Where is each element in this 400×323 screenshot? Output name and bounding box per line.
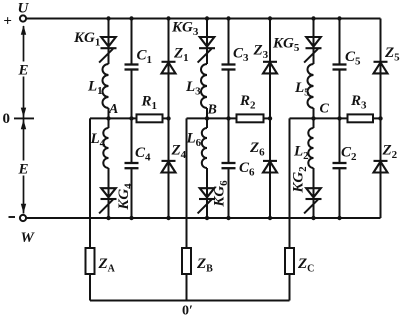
axis arrow up top [21, 25, 26, 35]
thyristor KG6 [198, 188, 215, 213]
wire thyristor column lower leg2 [206, 168, 208, 218]
junction top rail C1 [129, 16, 133, 20]
svg-text:A: A [108, 102, 118, 117]
label L5 [294, 80, 310, 99]
resistor R3 [348, 114, 374, 122]
label KG3 [171, 20, 199, 39]
wire C4 bottom lead [131, 169, 133, 218]
label KG4 [116, 183, 135, 211]
junction bottom rail C6 [226, 216, 230, 220]
resistor R1 [137, 114, 163, 122]
wire C3 top lead [228, 19, 230, 64]
junction node C capacitor [337, 116, 341, 120]
diode Z3 [263, 62, 277, 74]
wire C6 top lead [228, 118, 230, 162]
wire L1 to node A [108, 108, 110, 118]
svg-text:ZB: ZB [196, 256, 213, 275]
diode Z5 [374, 62, 388, 74]
capacitor C3 [222, 65, 236, 70]
junction top rail KG3 [205, 16, 209, 20]
wire R2 right lead [263, 117, 271, 119]
node 0 tick [14, 117, 34, 119]
inductor L5 [308, 64, 314, 108]
svg-text:C3: C3 [233, 46, 249, 65]
junction bottom rail C4 [129, 216, 133, 220]
wire leg1 thyristor column upper [108, 19, 110, 65]
label L1 [87, 79, 103, 98]
label 0' [182, 304, 193, 319]
junction bottom rail KG4 [106, 216, 110, 220]
inductor L2 [308, 128, 313, 168]
junction node A capacitor [129, 116, 133, 120]
wire load B drop [186, 118, 188, 248]
inductor L3 [201, 64, 207, 108]
wire C1 top lead [131, 19, 133, 64]
wire diode column upper leg1 [168, 19, 170, 119]
wire load A to 0' [89, 274, 91, 301]
wire R1 right lead [162, 117, 169, 119]
svg-text:KG1: KG1 [73, 30, 100, 49]
thyristor KG2 [304, 188, 321, 213]
wire L5 to node C [313, 108, 315, 118]
svg-text:KG5: KG5 [272, 36, 300, 55]
junction top rail C3 [226, 16, 230, 20]
label Z2 [382, 143, 398, 162]
wire diode column upper leg2 [269, 19, 271, 119]
svg-text:C5: C5 [345, 49, 361, 68]
capacitor C6 [222, 163, 236, 168]
svg-text:0′: 0′ [182, 304, 193, 319]
diode Z2 [374, 161, 388, 173]
wire bottom rail W (-) [26, 217, 380, 219]
wire load C drop [289, 118, 291, 248]
wire C2 bottom lead [339, 169, 341, 218]
junction node C diode [378, 116, 382, 120]
svg-text:C2: C2 [341, 145, 357, 164]
svg-text:Z5: Z5 [384, 45, 400, 64]
node C [311, 116, 315, 120]
label ZB [196, 256, 213, 275]
label U [18, 1, 30, 17]
svg-text:L3: L3 [185, 79, 201, 98]
wire top rail U (+) [26, 18, 380, 20]
svg-text:L2: L2 [293, 144, 309, 163]
terminal U [20, 15, 26, 21]
junction bottom rail KG2 [311, 216, 315, 220]
wire node A to L4 [108, 118, 110, 128]
wire C6 bottom lead [228, 169, 230, 218]
label L2 [293, 144, 309, 163]
wire diode column lower leg1 [168, 118, 170, 218]
capacitor C2 [333, 163, 347, 168]
wire C4 top lead [131, 118, 133, 162]
wire R3 right lead [372, 117, 381, 119]
capacitor C5 [333, 65, 347, 70]
svg-text:Z1: Z1 [173, 46, 189, 65]
axis arrow down mid [21, 108, 26, 118]
wire thyristor column lower leg1 [108, 168, 110, 218]
thyristor KG4 [99, 188, 116, 213]
wire C2 top lead [339, 118, 341, 162]
svg-text:0: 0 [3, 111, 11, 127]
load impedance ZB [182, 248, 191, 274]
svg-text:C: C [320, 102, 330, 117]
wire node C to L2 [313, 118, 315, 128]
label E upper [17, 62, 30, 79]
junction node B diode [268, 116, 272, 120]
inductor L4 [103, 128, 108, 168]
axis arrow up mid [21, 120, 26, 130]
svg-text:L1: L1 [87, 79, 103, 98]
thyristor KG1 [99, 37, 116, 63]
wire diode column lower leg3 [380, 118, 382, 218]
label C3 [233, 46, 249, 65]
wire diode column upper leg3 [380, 19, 382, 119]
label R1 [141, 94, 158, 113]
svg-text:ZC: ZC [297, 256, 314, 275]
label L4 [90, 131, 106, 150]
thyristor KG3 [198, 37, 215, 63]
wire thyristor column lower leg3 [313, 168, 315, 218]
capacitor C4 [125, 163, 139, 168]
resistor R2 [237, 114, 264, 122]
terminal W [20, 215, 26, 221]
label L3 [185, 79, 201, 98]
label Z4 [171, 143, 187, 162]
svg-text:ZA: ZA [98, 256, 116, 275]
svg-text:Z2: Z2 [382, 143, 398, 162]
node B [205, 116, 209, 120]
label C5 [345, 49, 361, 68]
svg-text:KG4: KG4 [116, 183, 135, 211]
svg-text:R3: R3 [350, 93, 367, 112]
load impedance ZA [86, 248, 95, 274]
wire node A line left [90, 117, 138, 119]
junction top rail Z3 [268, 16, 272, 20]
junction top rail KG5 [311, 16, 315, 20]
label Z1 [173, 46, 189, 65]
inductor L6 [202, 128, 207, 168]
svg-text:Z4: Z4 [171, 143, 187, 162]
wire C5 top lead [339, 19, 341, 64]
label Z6 [249, 140, 265, 159]
label W [21, 230, 36, 246]
junction node A diode [166, 116, 170, 120]
svg-text:B: B [207, 103, 217, 118]
label KG2 [291, 166, 310, 194]
svg-text:KG3: KG3 [171, 20, 199, 39]
svg-text:R1: R1 [141, 94, 158, 113]
svg-text:Z3: Z3 [253, 43, 269, 62]
svg-text:C4: C4 [135, 145, 151, 164]
label Z5 [384, 45, 400, 64]
junction bottom rail KG6 [205, 216, 209, 220]
node A [106, 116, 110, 120]
svg-text:KG6: KG6 [212, 180, 231, 208]
diode Z6 [263, 161, 277, 173]
svg-text:W: W [21, 230, 36, 246]
svg-text:R2: R2 [239, 93, 256, 112]
label C6 [239, 160, 255, 179]
svg-text:C1: C1 [137, 48, 153, 67]
junction top rail Z1 [166, 16, 170, 20]
label C4 [135, 145, 151, 164]
inductor L1 [103, 64, 109, 108]
wire C3 bottom lead [228, 70, 230, 118]
diode Z4 [162, 161, 176, 173]
wire C5 bottom lead [339, 70, 341, 118]
junction top rail C5 [337, 16, 341, 20]
wire node B to L6 [206, 118, 208, 128]
svg-text:KG2: KG2 [291, 166, 310, 194]
wire node C line left [290, 117, 349, 119]
thyristor KG5 [304, 37, 321, 63]
wire neutral 0' [90, 300, 290, 302]
label node B [207, 103, 217, 118]
label R3 [350, 93, 367, 112]
axis arrow down bottom [21, 204, 26, 214]
label ZC [297, 256, 314, 275]
wire load A drop [89, 118, 91, 248]
junction bottom rail C2 [337, 216, 341, 220]
capacitor C1 [125, 65, 139, 70]
wire L3 to node B [206, 108, 208, 118]
svg-text:U: U [18, 1, 30, 17]
wire C1 bottom lead [131, 70, 133, 118]
label KG1 [73, 30, 100, 49]
svg-text:C6: C6 [239, 160, 255, 179]
label C2 [341, 145, 357, 164]
label - [9, 216, 16, 218]
svg-text:L6: L6 [186, 131, 202, 150]
label L6 [186, 131, 202, 150]
label KG5 [272, 36, 300, 55]
wire leg3 thyristor column upper [313, 19, 315, 65]
wire diode column lower leg2 [269, 118, 271, 218]
svg-text:E: E [18, 63, 29, 79]
junction bottom rail Z4 [166, 216, 170, 220]
label KG6 [212, 180, 231, 208]
axis line E [23, 26, 25, 214]
wire node B line left [187, 117, 238, 119]
label node C [320, 102, 330, 117]
diode Z1 [162, 62, 176, 74]
label 0 [3, 111, 11, 127]
wire load C to 0' [289, 274, 291, 301]
wire load B to 0' [186, 274, 188, 301]
label node A [108, 102, 118, 117]
label ZA [98, 256, 116, 275]
svg-text:+: + [3, 14, 12, 30]
svg-text:Z6: Z6 [249, 140, 265, 159]
label + [3, 14, 12, 30]
label E lower [17, 161, 30, 178]
svg-text:E: E [18, 162, 29, 178]
junction bottom rail Z6 [268, 216, 272, 220]
label R2 [239, 93, 256, 112]
label Z3 [253, 43, 269, 62]
junction top rail KG1 [106, 16, 110, 20]
label C1 [137, 48, 153, 67]
junction node B capacitor [226, 116, 230, 120]
wire leg2 thyristor column upper [206, 19, 208, 65]
load impedance ZC [285, 248, 294, 274]
